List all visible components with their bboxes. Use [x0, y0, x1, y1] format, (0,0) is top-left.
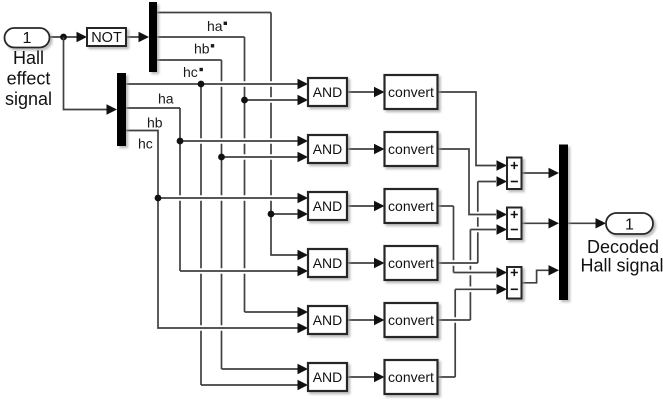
convert block 4: [385, 246, 438, 280]
svg-text:hc: hc: [183, 64, 198, 80]
wire AND6 to convert6: [347, 372, 385, 382]
output mux bar: [559, 145, 568, 301]
AND block 2: [308, 135, 347, 163]
svg-text:convert: convert: [388, 198, 434, 214]
svg-text:AND: AND: [313, 141, 343, 157]
label hb*: [194, 41, 214, 57]
wire hc: [126, 131, 308, 334]
wire sum3 to mux: [522, 265, 560, 283]
wire hc*: [157, 60, 308, 374]
svg-text:ha: ha: [207, 18, 223, 34]
NOT block: [87, 28, 126, 46]
label hb: [147, 115, 163, 131]
svg-text:Decoded: Decoded: [587, 237, 659, 257]
wire AND3 to convert3: [347, 201, 385, 211]
wire hb: [126, 108, 308, 276]
svg-text:convert: convert: [388, 312, 434, 328]
wire hb*: [157, 37, 308, 317]
svg-text:convert: convert: [388, 255, 434, 271]
convert block 6: [385, 360, 438, 394]
wire convert1 to sum1 plus: [438, 92, 508, 171]
svg-text:AND: AND: [313, 255, 343, 271]
svg-text:AND: AND: [313, 198, 343, 214]
convert block 5: [385, 303, 438, 337]
junction dot ha: [198, 81, 205, 88]
wire AND4 to convert4: [347, 258, 385, 268]
wire AND5 to convert5: [347, 315, 385, 325]
svg-text:AND: AND: [313, 312, 343, 328]
wire convert2 to sum2 plus: [438, 149, 508, 220]
svg-text:AND: AND: [313, 369, 343, 385]
wire: NOT to demux1: [126, 32, 149, 42]
svg-text:hc: hc: [138, 135, 153, 151]
AND block 4: [308, 249, 347, 277]
svg-text:NOT: NOT: [91, 30, 122, 46]
AND block 1: [308, 78, 347, 106]
wire convert5 to sum2 minus: [438, 224, 508, 320]
AND block 6: [308, 363, 347, 391]
convert block 2: [385, 132, 438, 166]
demux bar 1 (inverted signals): [149, 2, 157, 72]
wire AND2 to convert2: [347, 144, 385, 154]
junction dot hc: [155, 195, 162, 202]
wire convert3 to sum3 plus: [438, 206, 508, 278]
svg-text:Hall: Hall: [13, 48, 44, 68]
junction dot ha*: [268, 211, 275, 218]
sum block 3: [507, 267, 522, 299]
wire AND1 to convert1: [347, 87, 385, 97]
output port 1: [606, 213, 653, 234]
svg-text:hb: hb: [147, 115, 163, 131]
AND block 5: [308, 306, 347, 334]
svg-text:convert: convert: [388, 141, 434, 157]
wire sum2 to mux: [522, 218, 560, 228]
junction dot hb*: [241, 97, 248, 104]
svg-text:convert: convert: [388, 369, 434, 385]
svg-text:Hall signal: Hall signal: [580, 256, 663, 276]
svg-text:effect: effect: [7, 69, 51, 89]
wire mux to outport: [568, 218, 606, 228]
wire: inport to NOT: [49, 32, 87, 42]
wire ha: [126, 79, 308, 390]
svg-text:signal: signal: [5, 89, 52, 109]
label hc: [138, 135, 153, 151]
svg-text:convert: convert: [388, 84, 434, 100]
junction dot hb: [177, 138, 184, 145]
sum block 1: [507, 158, 522, 190]
svg-text:hb: hb: [194, 41, 210, 57]
label Decoded Hall signal: [580, 237, 663, 276]
wire convert4 to sum1 minus: [438, 176, 508, 263]
junction dot hc*: [218, 154, 225, 161]
wire sum1 to mux: [522, 168, 560, 178]
wire convert6 to sum3 minus: [438, 284, 508, 377]
AND block 3: [308, 192, 347, 220]
convert block 1: [385, 75, 438, 109]
demux bar 2 (direct signals): [117, 73, 126, 146]
svg-text:AND: AND: [313, 84, 343, 100]
label ha: [158, 90, 174, 106]
input port 1: [5, 28, 50, 48]
svg-text:1: 1: [625, 217, 634, 234]
sum block 2: [507, 208, 522, 240]
svg-text:1: 1: [23, 30, 32, 47]
wire ha*: [157, 13, 308, 261]
label Hall effect signal: [5, 48, 52, 109]
convert block 3: [385, 189, 438, 223]
svg-text:ha: ha: [158, 90, 174, 106]
wire: input branch down to demux2: [64, 37, 118, 115]
label hc*: [183, 64, 203, 80]
label ha*: [207, 18, 227, 34]
junction dot input branch: [60, 34, 67, 41]
